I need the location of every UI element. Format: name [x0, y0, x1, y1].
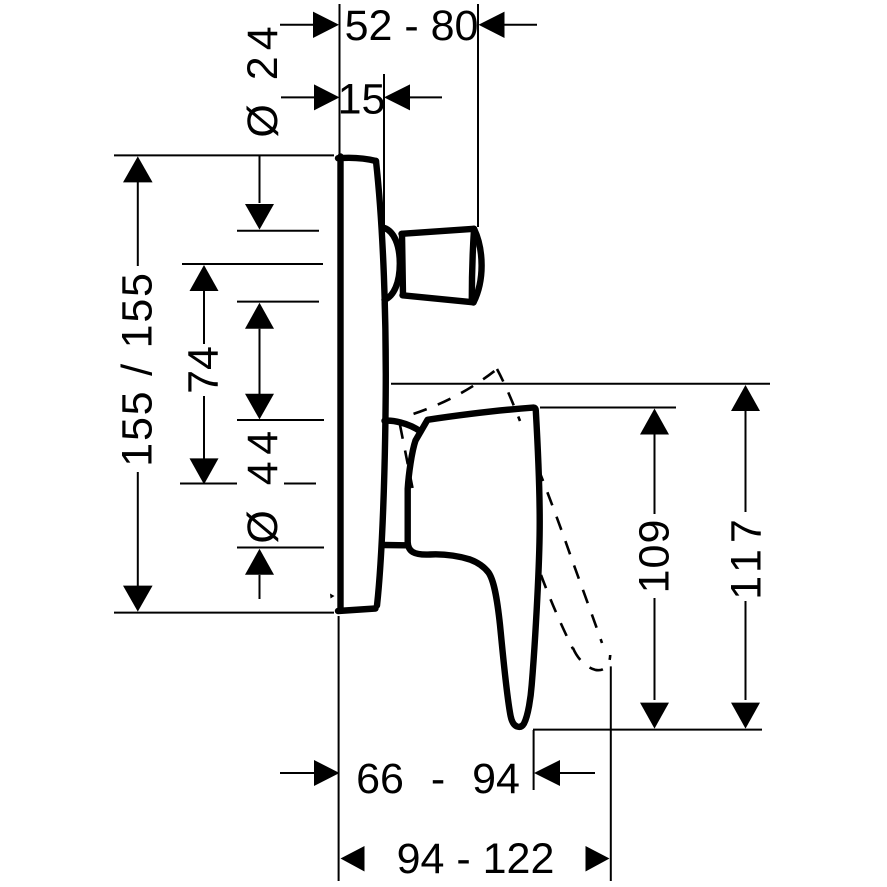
arrow diameter 24 top pointing down — [245, 204, 274, 230]
arrow left of dim 94-122 pointing left — [341, 846, 365, 872]
arrow diameter 44 top pointing down — [245, 394, 274, 420]
escutcheon plate top edge — [338, 158, 376, 161]
wire handle axis reference line right segment — [284, 483, 316, 485]
arrow right of dim 66-94 — [534, 760, 560, 786]
dashed folded handle front edge lower — [538, 468, 602, 643]
wire dim line 117 upper segment — [745, 410, 747, 512]
knob body left face — [402, 234, 403, 295]
wire handle axis reference line left segment — [180, 483, 237, 485]
knob front rim line — [472, 229, 474, 300]
arrow 155/155 bottom pointing down — [123, 586, 153, 612]
handle hub bottom edge — [384, 542, 406, 549]
wire extension line left of dim 52-80 — [339, 4, 341, 155]
svg-text:15: 15 — [338, 76, 386, 124]
escutcheon plate right profile — [376, 161, 386, 606]
wire handle hub top reference line — [237, 419, 324, 421]
svg-text:155 / 155: 155 / 155 — [114, 271, 162, 467]
arrow right of dim 15 — [384, 84, 410, 110]
wire rotated handle top reference line — [391, 383, 770, 385]
wire extension line below handle tip — [533, 730, 535, 790]
wire tail right of dim 15 — [410, 96, 442, 98]
dashed folded handle tip arc — [573, 648, 610, 670]
wire extension line right of dim 52-80 — [477, 4, 479, 227]
escutcheon plate bottom edge — [338, 609, 376, 612]
knob body bottom edge — [403, 295, 474, 302]
wire dim line 74 lower segment — [203, 396, 205, 459]
knob end cap arc — [474, 229, 482, 303]
wire bottom reference line of dim 155/155 — [114, 612, 334, 614]
wire tail left of dim 66-94 — [280, 772, 315, 774]
wire extension line below folded handle tip — [610, 666, 612, 881]
handle hub top arc — [385, 421, 421, 432]
wire tail right of dim 66-94 — [560, 772, 595, 774]
wire tail left of dim 15 — [281, 96, 315, 98]
knob body top edge — [402, 229, 475, 234]
arrow left of dim 52-80 — [313, 12, 339, 38]
wire knob bottom reference line — [237, 301, 319, 303]
wire handle bottom reference line — [533, 729, 762, 731]
wire dim line 109 lower segment — [654, 598, 656, 700]
artifact speck near plate bottom — [330, 594, 335, 599]
dashed folded handle top edge — [404, 369, 497, 417]
wire tail right of dim 52-80 — [505, 24, 538, 26]
wire handle hub bottom reference line — [237, 547, 324, 549]
wire top reference line of dim 155/155 — [114, 154, 334, 156]
lever handle outline — [408, 408, 540, 727]
escutcheon plate left edge — [337, 157, 343, 611]
svg-text:94 - 122: 94 - 122 — [397, 835, 555, 883]
knob neck arc — [385, 228, 400, 300]
svg-text:74: 74 — [180, 346, 228, 394]
arrow dim 74 top pointing up — [190, 265, 219, 291]
dashed folded handle front edge upper — [497, 369, 520, 421]
arrow right of dim 52-80 — [479, 12, 505, 38]
arrow dim 117 bottom pointing down — [731, 703, 760, 729]
svg-text:52 - 80: 52 - 80 — [345, 2, 479, 50]
wire extension line below plate left — [338, 616, 340, 881]
wire tail below diameter 44 arrow — [259, 575, 261, 599]
svg-text:109: 109 — [631, 519, 679, 594]
wire knob top reference line — [237, 230, 319, 232]
svg-text:66 - 94: 66 - 94 — [356, 755, 520, 803]
wire dim line 117 lower segment — [745, 601, 747, 700]
wire solid handle top reference line — [540, 407, 676, 409]
wire dim line 74 upper segment — [203, 290, 205, 344]
arrow diameter 44 bottom pointing up — [245, 549, 274, 575]
wire tail between diameter arrows — [259, 329, 261, 394]
wire dim line 155/155 upper segment — [137, 182, 139, 266]
arrow 155/155 top pointing up — [123, 156, 153, 182]
svg-text:Ø 44: Ø 44 — [239, 424, 287, 543]
arrow dim 117 top pointing up — [731, 385, 760, 411]
svg-text:117: 117 — [723, 513, 771, 600]
arrow right of dim 94-122 pointing right — [586, 846, 610, 872]
wire pointer line for diameter 24 — [259, 155, 261, 203]
arrow dim 109 bottom pointing down — [640, 703, 669, 729]
wire extension line right of dim 15 — [383, 74, 385, 226]
wire dim line 109 upper segment — [654, 434, 656, 514]
wire tail left of dim 52-80 — [280, 24, 314, 26]
wire knob axis reference line — [182, 263, 323, 265]
arrow left of dim 15 — [314, 84, 340, 110]
wire dim line 155/155 lower segment — [137, 472, 139, 588]
dashed folded handle left edge near pivot — [400, 425, 413, 488]
arrow dim 74 bottom pointing down — [190, 458, 219, 484]
svg-text:Ø 24: Ø 24 — [239, 20, 287, 137]
arrow diameter 24 bottom pointing up — [245, 303, 274, 329]
dashed folded handle inner edge — [541, 575, 573, 649]
arrow dim 109 top pointing up — [640, 409, 669, 435]
arrow left of dim 66-94 — [314, 760, 340, 786]
